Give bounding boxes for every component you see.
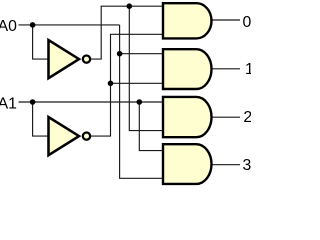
wire A1 drop to inverter U2 input [33,102,49,136]
wire output 0 [212,19,241,21]
svg-text:3: 3 [243,157,252,174]
svg-text:A1: A1 [0,95,17,112]
wire A0 bus down to gate 3 bottom input [120,25,163,178]
wire A0 horizontal [19,24,120,26]
inverter U2 triangle [49,117,80,155]
AND gate 2 [163,97,211,137]
wire U1 output to /A0 rail [89,6,163,59]
junction dot /A0 rail [127,3,133,9]
inverter U1 triangle [49,40,80,78]
wire A0 drop to inverter U1 input [33,25,49,59]
inverter U1 bubble [83,55,90,62]
wire A1 drop to gate 3 top input [139,102,163,151]
wire /A1 branch to gate 1 bottom input [111,82,164,84]
svg-text:1: 1 [245,61,251,78]
wire output 1 [212,68,241,70]
svg-text:A0: A0 [0,18,17,35]
wire A1 horizontal to gate 2 top input [19,101,164,103]
wire U2 output /A1 bus [89,34,163,136]
junction dot /A1 bus / gate1 [108,81,114,87]
wire /A0 drop to gate 2 bottom input [129,6,163,130]
junction dot A1/U2 [30,99,36,105]
junction dot A0/U1 [30,22,36,28]
junction dot A1 / gate3 [137,99,143,105]
svg-text:2: 2 [243,109,251,126]
wire A0 branch to gate 1 top input [120,53,163,55]
wire output 2 [212,116,241,118]
AND gate 3 [163,144,212,184]
AND gate 1 [163,49,212,89]
AND gate 0 [163,3,211,38]
inverter U2 bubble [83,132,90,139]
svg-text:0: 0 [243,14,252,31]
wire output 3 [212,164,241,166]
junction dot A0 bus / gate1 [117,51,123,57]
